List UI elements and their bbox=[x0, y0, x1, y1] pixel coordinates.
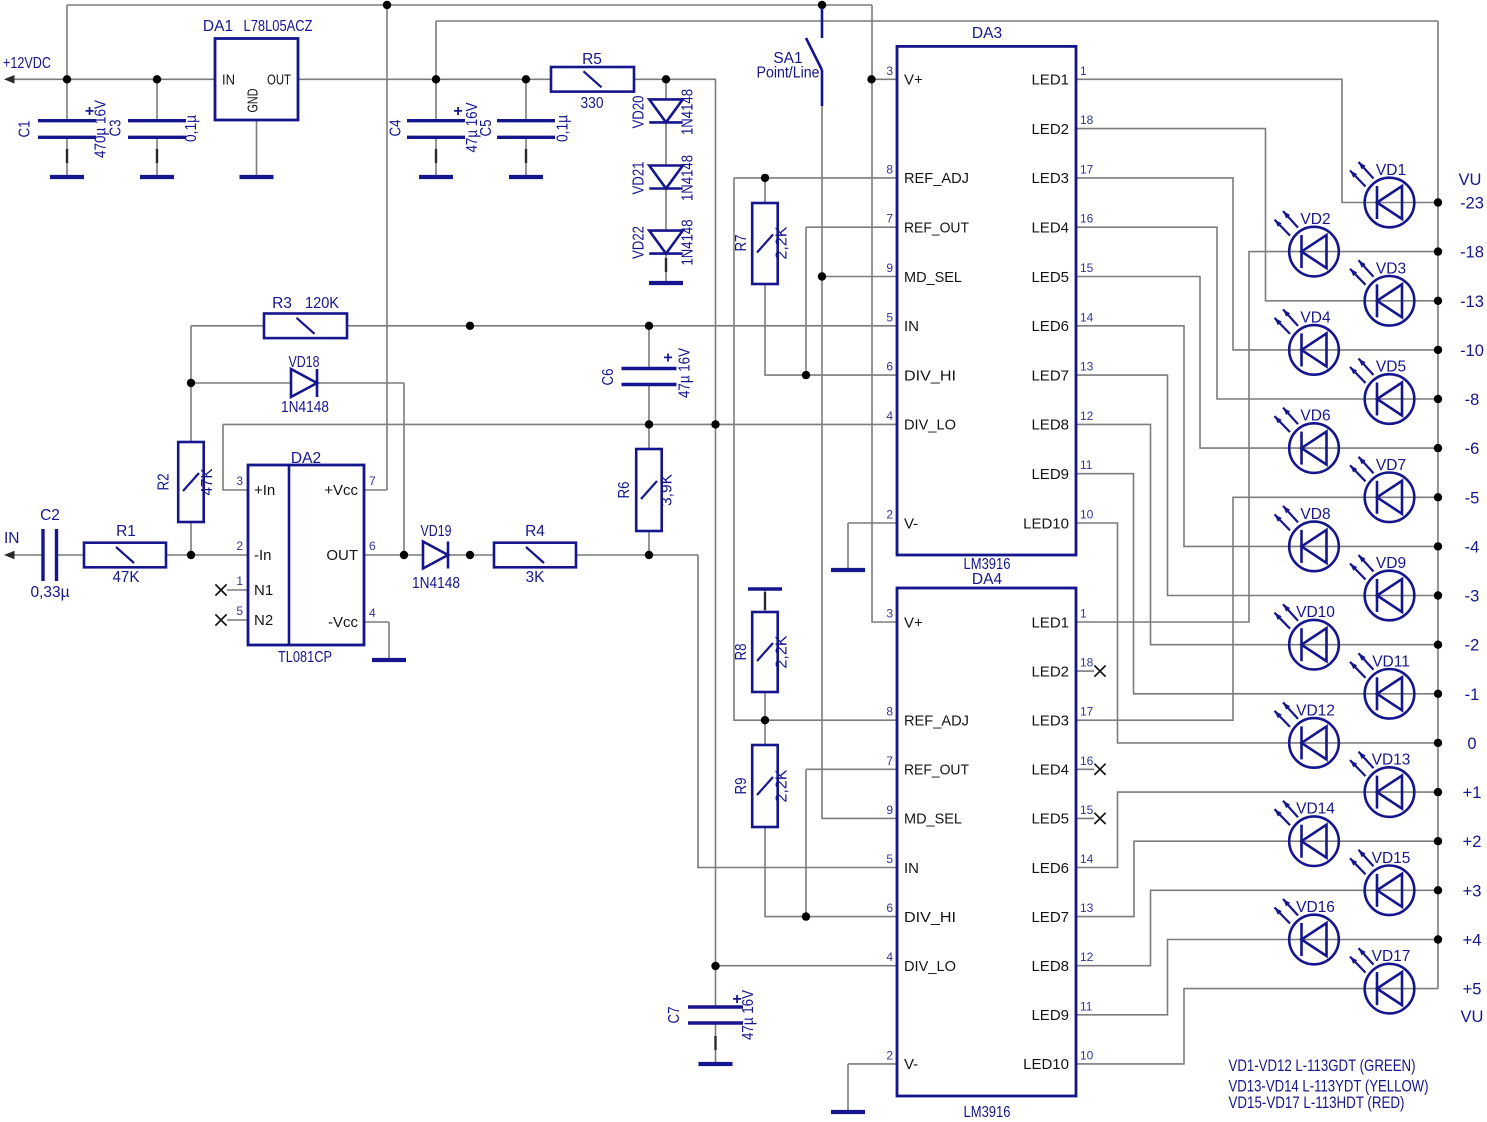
svg-text:R1: R1 bbox=[116, 523, 136, 540]
svg-text:R9: R9 bbox=[733, 778, 750, 795]
svg-text:VD1: VD1 bbox=[1376, 162, 1406, 179]
svg-text:11: 11 bbox=[1080, 999, 1093, 1013]
svg-text:GND: GND bbox=[245, 88, 262, 112]
svg-text:+In: +In bbox=[254, 482, 275, 499]
svg-text:VD18: VD18 bbox=[289, 354, 320, 371]
svg-text:LED6: LED6 bbox=[1031, 860, 1069, 877]
svg-text:VD11: VD11 bbox=[1372, 653, 1410, 670]
svg-text:LED2: LED2 bbox=[1031, 121, 1069, 138]
svg-text:LED3: LED3 bbox=[1031, 713, 1069, 730]
svg-text:4: 4 bbox=[369, 606, 376, 620]
svg-text:4: 4 bbox=[886, 950, 893, 964]
svg-text:17: 17 bbox=[1080, 162, 1094, 176]
svg-text:REF_OUT: REF_OUT bbox=[904, 762, 969, 779]
svg-text:5: 5 bbox=[886, 852, 893, 866]
svg-text:1N4148: 1N4148 bbox=[680, 89, 697, 135]
svg-text:1: 1 bbox=[1080, 607, 1087, 621]
svg-text:VD14: VD14 bbox=[1296, 801, 1335, 818]
svg-text:-3: -3 bbox=[1465, 588, 1480, 606]
svg-text:VD9: VD9 bbox=[1376, 555, 1406, 572]
svg-text:2,2K: 2,2K bbox=[774, 635, 791, 669]
svg-text:8: 8 bbox=[886, 705, 893, 719]
svg-text:6: 6 bbox=[886, 901, 893, 915]
svg-text:3: 3 bbox=[236, 474, 243, 488]
svg-text:DIV_LO: DIV_LO bbox=[904, 417, 956, 434]
svg-text:DIV_LO: DIV_LO bbox=[904, 958, 956, 975]
svg-text:2,2K: 2,2K bbox=[774, 226, 791, 260]
svg-text:-13: -13 bbox=[1460, 293, 1484, 311]
svg-text:OUT: OUT bbox=[267, 72, 291, 89]
svg-text:1: 1 bbox=[236, 574, 243, 588]
svg-text:0,33µ: 0,33µ bbox=[31, 584, 70, 601]
svg-text:+: + bbox=[453, 103, 462, 120]
svg-text:LED7: LED7 bbox=[1031, 909, 1069, 926]
svg-text:0: 0 bbox=[1467, 735, 1476, 753]
svg-text:18: 18 bbox=[1080, 656, 1094, 670]
svg-text:47K: 47K bbox=[113, 569, 141, 586]
svg-text:LED5: LED5 bbox=[1031, 269, 1069, 286]
svg-text:R2: R2 bbox=[156, 474, 173, 491]
svg-text:+4: +4 bbox=[1463, 932, 1482, 950]
svg-text:0,1µ: 0,1µ bbox=[183, 115, 200, 142]
svg-text:IN: IN bbox=[222, 72, 235, 89]
svg-text:12: 12 bbox=[1080, 950, 1094, 964]
svg-text:MD_SEL: MD_SEL bbox=[904, 811, 962, 828]
svg-text:7: 7 bbox=[886, 754, 893, 768]
svg-text:LED10: LED10 bbox=[1023, 515, 1069, 532]
svg-text:7: 7 bbox=[369, 474, 376, 488]
svg-text:LED4: LED4 bbox=[1031, 762, 1069, 779]
svg-text:47µ 16V: 47µ 16V bbox=[677, 347, 694, 398]
svg-text:REF_ADJ: REF_ADJ bbox=[904, 170, 969, 187]
svg-text:VD12: VD12 bbox=[1296, 702, 1335, 719]
svg-text:5: 5 bbox=[886, 310, 893, 324]
svg-text:VU: VU bbox=[1459, 171, 1482, 189]
svg-text:C1: C1 bbox=[17, 121, 34, 138]
svg-text:0,1µ: 0,1µ bbox=[555, 115, 572, 142]
svg-text:-2: -2 bbox=[1465, 637, 1480, 655]
svg-text:C2: C2 bbox=[40, 507, 60, 524]
svg-text:7: 7 bbox=[886, 212, 893, 226]
svg-text:VD10: VD10 bbox=[1296, 604, 1335, 621]
svg-text:DIV_HI: DIV_HI bbox=[904, 367, 956, 384]
svg-text:13: 13 bbox=[1080, 360, 1094, 374]
svg-text:LED9: LED9 bbox=[1031, 1007, 1069, 1024]
svg-text:14: 14 bbox=[1080, 852, 1094, 866]
svg-text:LED8: LED8 bbox=[1031, 958, 1069, 975]
svg-text:18: 18 bbox=[1080, 113, 1094, 127]
svg-text:VD1-VD12 L-113GDT (GREEN): VD1-VD12 L-113GDT (GREEN) bbox=[1229, 1056, 1416, 1075]
svg-text:12: 12 bbox=[1080, 409, 1094, 423]
svg-text:VD21: VD21 bbox=[631, 162, 648, 195]
svg-text:LED1: LED1 bbox=[1031, 614, 1069, 631]
svg-text:3,9K: 3,9K bbox=[659, 473, 676, 506]
svg-text:DIV_HI: DIV_HI bbox=[904, 909, 956, 926]
svg-text:LED6: LED6 bbox=[1031, 318, 1069, 335]
svg-text:DA3: DA3 bbox=[972, 25, 1002, 42]
svg-text:VD6: VD6 bbox=[1300, 408, 1330, 425]
svg-text:10: 10 bbox=[1080, 1048, 1094, 1062]
svg-text:REF_OUT: REF_OUT bbox=[904, 220, 969, 237]
svg-text:OUT: OUT bbox=[326, 547, 358, 564]
svg-text:1N4148: 1N4148 bbox=[412, 575, 460, 592]
svg-text:120K: 120K bbox=[305, 295, 340, 312]
svg-text:16: 16 bbox=[1080, 212, 1094, 226]
svg-text:C7: C7 bbox=[666, 1007, 683, 1024]
svg-text:VU: VU bbox=[1461, 1008, 1484, 1026]
svg-text:8: 8 bbox=[886, 162, 893, 176]
svg-text:LED3: LED3 bbox=[1031, 170, 1069, 187]
svg-text:+12VDC: +12VDC bbox=[3, 55, 51, 72]
svg-text:VD7: VD7 bbox=[1376, 457, 1406, 474]
svg-text:10: 10 bbox=[1080, 508, 1094, 522]
svg-text:LED1: LED1 bbox=[1031, 72, 1069, 89]
svg-text:DA4: DA4 bbox=[972, 571, 1003, 588]
svg-text:6: 6 bbox=[369, 539, 376, 553]
svg-text:3: 3 bbox=[886, 607, 893, 621]
svg-text:+3: +3 bbox=[1463, 882, 1482, 900]
svg-text:-Vcc: -Vcc bbox=[328, 614, 359, 631]
svg-text:330: 330 bbox=[581, 95, 604, 112]
svg-text:16: 16 bbox=[1080, 754, 1094, 768]
svg-text:R3: R3 bbox=[272, 295, 292, 312]
svg-text:R8: R8 bbox=[733, 644, 750, 661]
svg-text:REF_ADJ: REF_ADJ bbox=[904, 713, 969, 730]
svg-text:DA1: DA1 bbox=[203, 18, 233, 35]
svg-text:R7: R7 bbox=[733, 235, 750, 252]
svg-text:VD15: VD15 bbox=[1372, 850, 1411, 867]
svg-text:LED9: LED9 bbox=[1031, 466, 1069, 483]
svg-text:V-: V- bbox=[904, 515, 918, 532]
svg-text:13: 13 bbox=[1080, 901, 1094, 915]
svg-text:+: + bbox=[663, 350, 672, 367]
svg-text:VD15-VD17 L-113HDT (RED): VD15-VD17 L-113HDT (RED) bbox=[1229, 1093, 1405, 1112]
svg-text:2: 2 bbox=[886, 508, 893, 522]
svg-text:-23: -23 bbox=[1460, 195, 1484, 213]
svg-text:14: 14 bbox=[1080, 310, 1094, 324]
svg-text:9: 9 bbox=[886, 261, 893, 275]
svg-text:+: + bbox=[732, 991, 741, 1008]
svg-text:4: 4 bbox=[886, 409, 893, 423]
svg-text:2: 2 bbox=[236, 539, 243, 553]
svg-text:2,2K: 2,2K bbox=[774, 769, 791, 803]
svg-text:TL081CP: TL081CP bbox=[278, 649, 332, 666]
svg-text:1: 1 bbox=[1080, 64, 1087, 78]
svg-text:-5: -5 bbox=[1465, 489, 1480, 507]
svg-text:VD22: VD22 bbox=[631, 226, 648, 259]
svg-text:V+: V+ bbox=[904, 72, 923, 89]
svg-text:R6: R6 bbox=[616, 482, 633, 499]
svg-text:1N4148: 1N4148 bbox=[281, 399, 329, 416]
svg-text:-In: -In bbox=[254, 547, 272, 564]
svg-text:9: 9 bbox=[886, 803, 893, 817]
svg-text:MD_SEL: MD_SEL bbox=[904, 269, 962, 286]
svg-text:Point/Line: Point/Line bbox=[757, 65, 820, 82]
svg-text:3K: 3K bbox=[526, 569, 546, 586]
svg-text:5: 5 bbox=[236, 604, 243, 618]
svg-text:VD19: VD19 bbox=[421, 523, 452, 540]
svg-text:R5: R5 bbox=[582, 51, 602, 68]
svg-text:1N4148: 1N4148 bbox=[680, 155, 697, 201]
svg-text:VD3: VD3 bbox=[1376, 260, 1406, 277]
svg-text:6: 6 bbox=[886, 360, 893, 374]
svg-text:47µ 16V: 47µ 16V bbox=[740, 989, 757, 1040]
svg-text:-8: -8 bbox=[1465, 391, 1480, 409]
svg-text:LED5: LED5 bbox=[1031, 811, 1069, 828]
svg-text:2: 2 bbox=[886, 1048, 893, 1062]
svg-text:+: + bbox=[85, 103, 94, 120]
svg-text:VD16: VD16 bbox=[1296, 899, 1335, 916]
svg-text:15: 15 bbox=[1080, 803, 1094, 817]
svg-text:VD4: VD4 bbox=[1300, 309, 1331, 326]
svg-text:C3: C3 bbox=[108, 120, 125, 137]
svg-text:+1: +1 bbox=[1463, 784, 1482, 802]
svg-text:VD2: VD2 bbox=[1300, 211, 1330, 228]
svg-text:V+: V+ bbox=[904, 614, 923, 631]
svg-text:IN: IN bbox=[4, 530, 20, 547]
svg-text:VD13: VD13 bbox=[1372, 752, 1411, 769]
svg-text:+5: +5 bbox=[1463, 981, 1482, 999]
svg-text:C4: C4 bbox=[388, 119, 405, 136]
svg-text:+Vcc: +Vcc bbox=[324, 482, 358, 499]
svg-text:LED4: LED4 bbox=[1031, 220, 1069, 237]
svg-text:IN: IN bbox=[904, 318, 919, 335]
svg-text:C6: C6 bbox=[600, 369, 617, 386]
svg-text:N2: N2 bbox=[254, 612, 273, 629]
svg-text:-6: -6 bbox=[1465, 440, 1480, 458]
svg-text:VD20: VD20 bbox=[631, 95, 648, 128]
svg-text:N1: N1 bbox=[254, 582, 273, 599]
svg-text:V-: V- bbox=[904, 1056, 918, 1073]
svg-text:DA2: DA2 bbox=[291, 450, 321, 467]
svg-text:VD5: VD5 bbox=[1376, 359, 1406, 376]
svg-text:R4: R4 bbox=[525, 523, 545, 540]
svg-text:VD8: VD8 bbox=[1300, 506, 1330, 523]
svg-text:-18: -18 bbox=[1460, 244, 1484, 262]
svg-text:LED10: LED10 bbox=[1023, 1056, 1069, 1073]
svg-text:+2: +2 bbox=[1463, 833, 1482, 851]
svg-text:LED8: LED8 bbox=[1031, 417, 1069, 434]
svg-text:VD17: VD17 bbox=[1372, 948, 1411, 965]
svg-text:17: 17 bbox=[1080, 705, 1094, 719]
svg-text:-4: -4 bbox=[1465, 538, 1480, 556]
svg-text:-1: -1 bbox=[1465, 686, 1480, 704]
svg-text:1N4148: 1N4148 bbox=[680, 220, 697, 266]
svg-text:LED2: LED2 bbox=[1031, 663, 1069, 680]
svg-text:11: 11 bbox=[1080, 458, 1093, 472]
svg-text:-10: -10 bbox=[1460, 342, 1484, 360]
svg-text:LM3916: LM3916 bbox=[964, 1104, 1011, 1121]
svg-text:C5: C5 bbox=[478, 120, 495, 137]
svg-text:LED7: LED7 bbox=[1031, 367, 1069, 384]
svg-text:3: 3 bbox=[886, 64, 893, 78]
svg-text:47K: 47K bbox=[199, 468, 216, 496]
svg-text:L78L05ACZ: L78L05ACZ bbox=[244, 18, 313, 35]
svg-text:IN: IN bbox=[904, 860, 919, 877]
svg-text:15: 15 bbox=[1080, 261, 1094, 275]
